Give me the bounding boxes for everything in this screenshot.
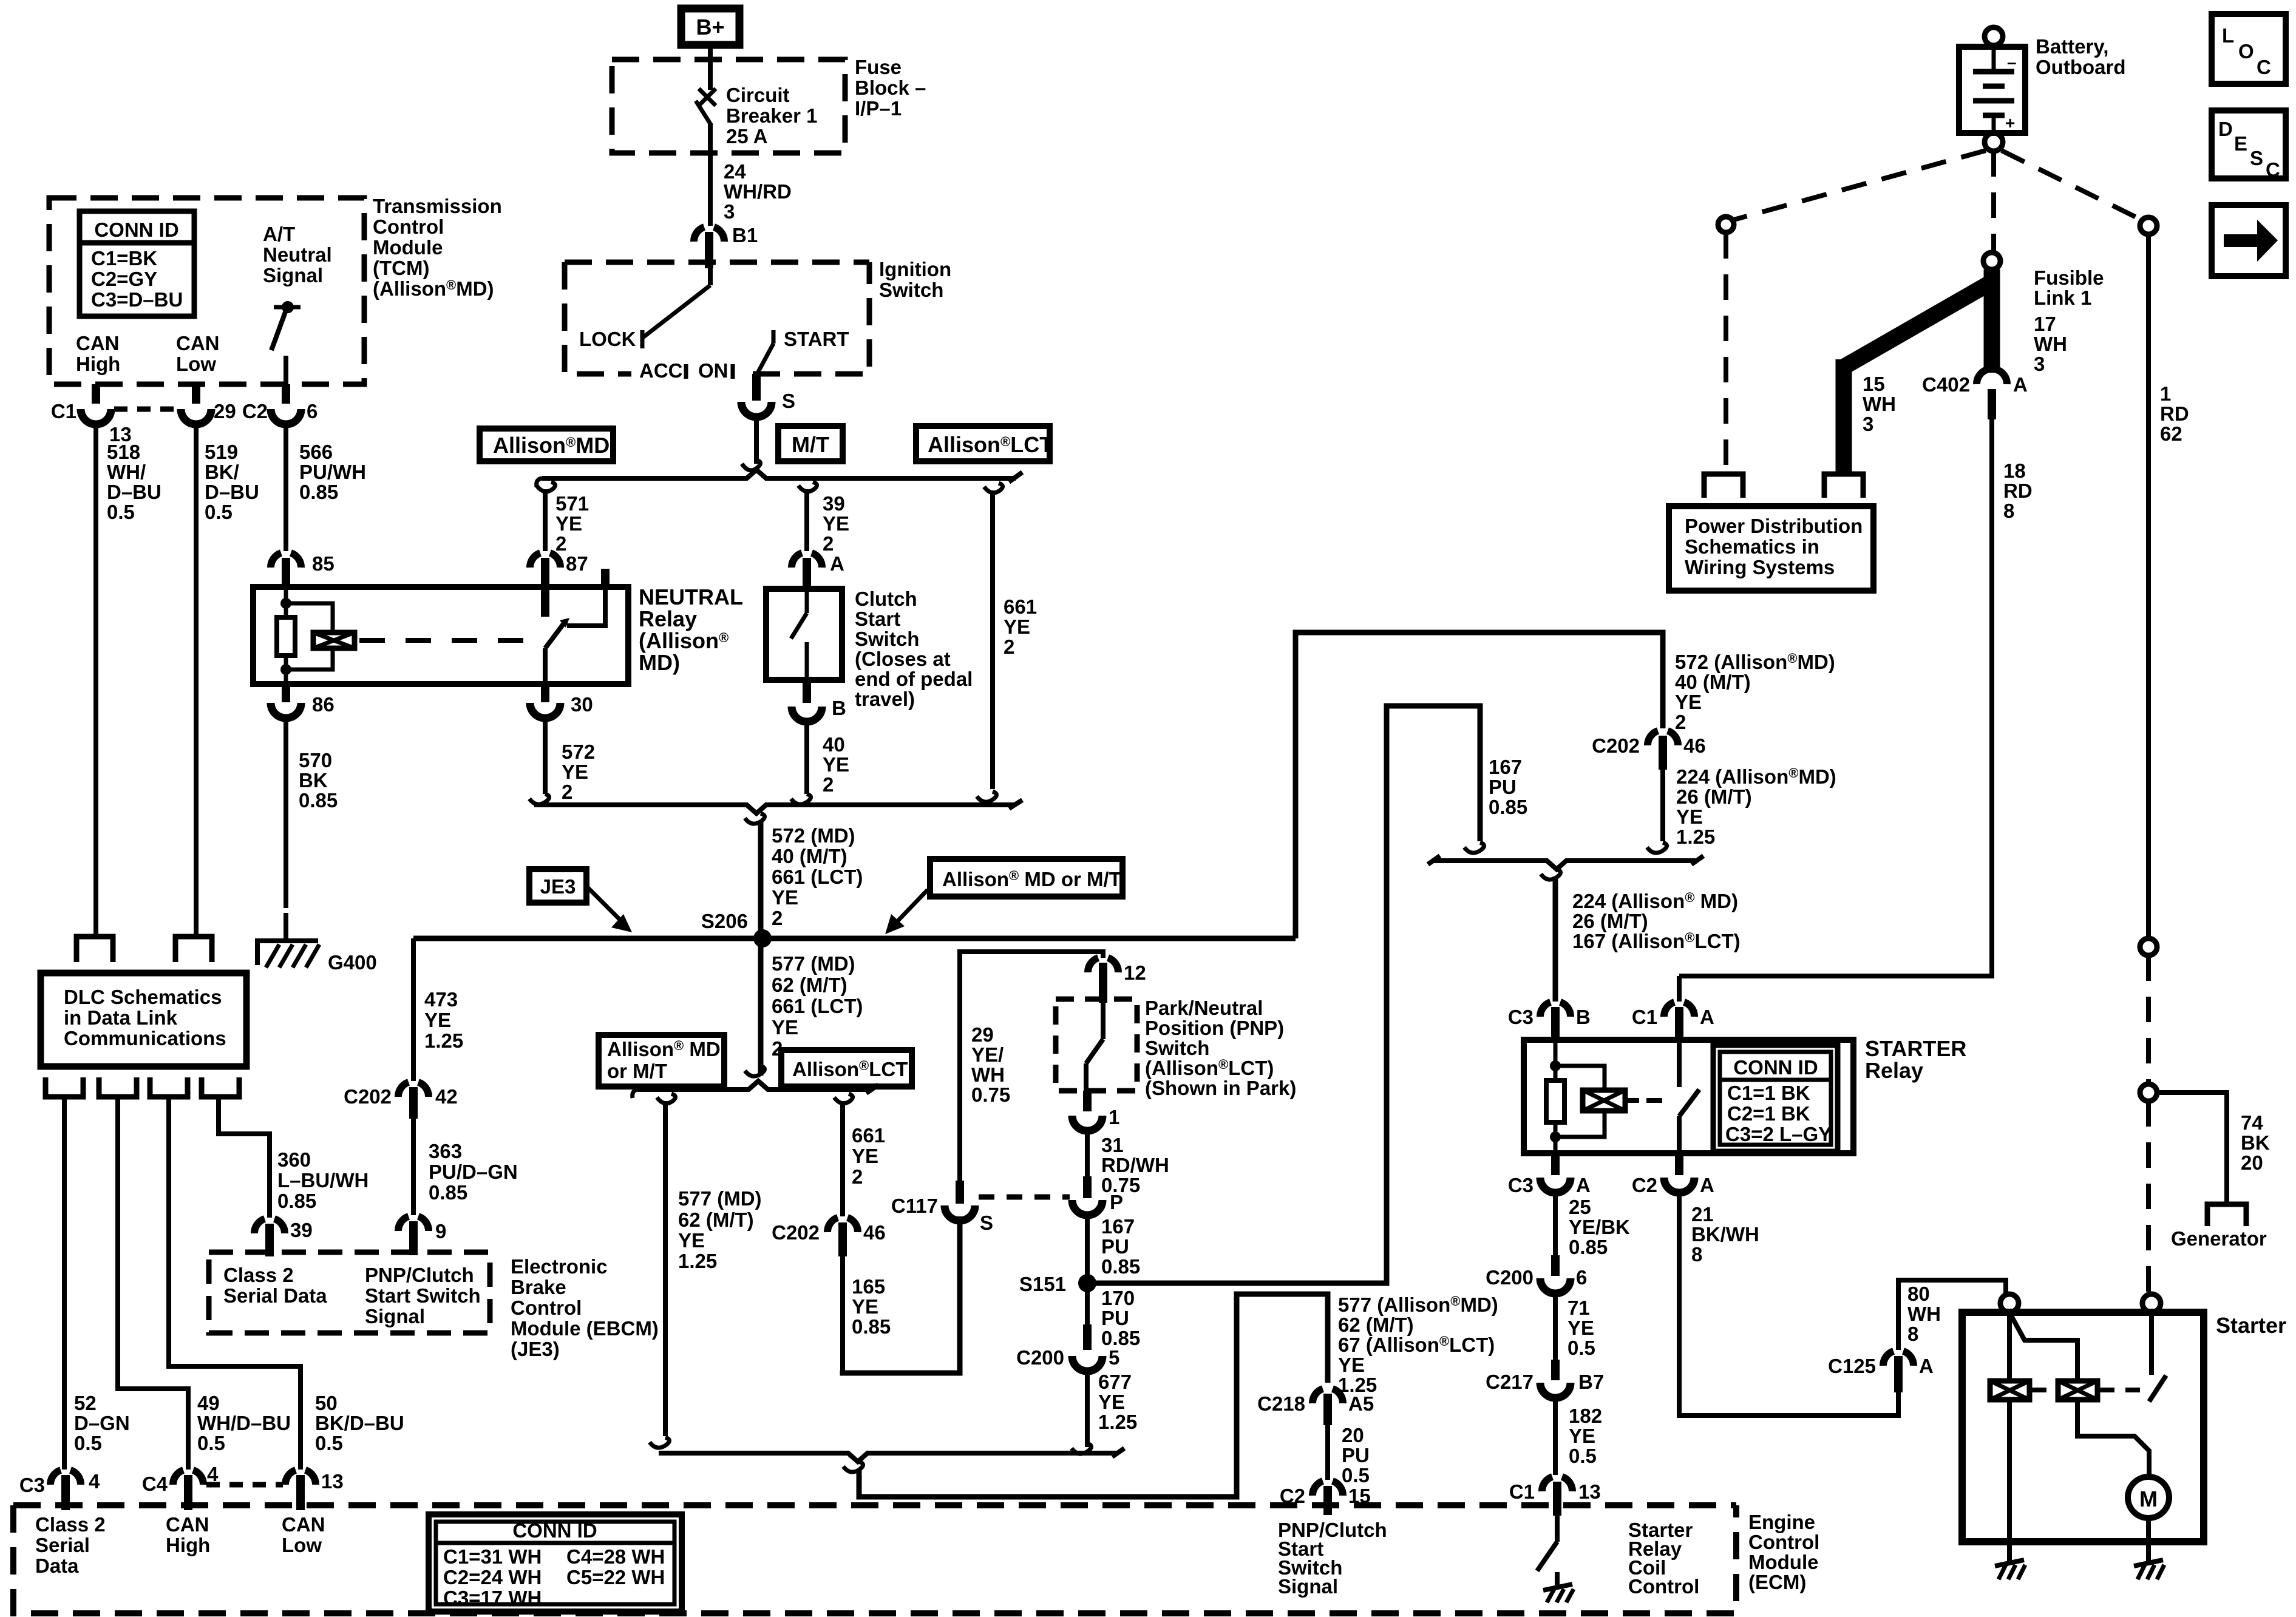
option bracket line 2: [534, 805, 1016, 813]
dashed line C1 to 29: [114, 407, 178, 412]
dashed wire battery to right branch: [2002, 151, 2141, 220]
svg-text:C2=GY: C2=GY: [91, 268, 157, 290]
starter terminal circle S: [2000, 1294, 2019, 1312]
wire 571 branch hook: [537, 482, 555, 492]
DLC output bracket 4: [202, 1077, 239, 1097]
connector C1 pin A (starter relay): [1632, 1002, 1714, 1040]
bracket 1 right end tick: [1009, 472, 1022, 482]
wire DLC3 down: [169, 1097, 301, 1470]
EBCM dashed box: [209, 1252, 490, 1333]
svg-text:C3: C3: [19, 1474, 45, 1496]
svg-text:0.85: 0.85: [1101, 1327, 1140, 1349]
svg-text:4: 4: [89, 1470, 100, 1493]
hook 577 wire to bracket4: [650, 1437, 670, 1448]
battery polarity signs: [2005, 53, 2017, 132]
svg-text:B7: B7: [1578, 1371, 1604, 1393]
svg-text:S151: S151: [1019, 1273, 1066, 1295]
svg-text:C1=BK: C1=BK: [91, 247, 157, 269]
hook 40 wire to bracket2: [791, 794, 811, 804]
svg-text:I/P–1: I/P–1: [855, 97, 902, 120]
connector C2 pin 6 (TCM): [242, 384, 318, 551]
label 224(AllisonMD) 26(M/T) 167(AllisonLCT): [1572, 890, 1741, 952]
svg-text:30: 30: [571, 693, 593, 716]
terminal circle mid 1RD62: [2140, 938, 2157, 955]
ground G400: [255, 941, 377, 974]
hook 224 wire to bracket3: [1647, 842, 1667, 853]
svg-text:25: 25: [1569, 1196, 1591, 1218]
connector C1 (TCM): [51, 384, 111, 937]
svg-text:C3=17 WH: C3=17 WH: [443, 1587, 542, 1609]
svg-text:YE: YE: [424, 1009, 451, 1031]
svg-text:Power Distribution: Power Distribution: [1685, 515, 1863, 537]
label 677 YE 1.25: [1098, 1371, 1137, 1433]
svg-text:Signal: Signal: [263, 264, 323, 286]
starter solenoid wire 1: [2007, 1312, 2012, 1381]
svg-text:519: 519: [205, 441, 238, 463]
svg-text:C1: C1: [1509, 1480, 1535, 1503]
svg-text:Link 1: Link 1: [2034, 286, 2091, 309]
svg-text:Block –: Block –: [855, 76, 926, 99]
svg-text:2: 2: [823, 773, 834, 796]
svg-text:661 (LCT): 661 (LCT): [772, 866, 863, 888]
label 224(AllisonMD) 26(M/T) YE 1.25: [1676, 765, 1836, 848]
label 570 BK 0.85: [299, 749, 338, 812]
wire 80 WH 8 to starter: [1898, 1280, 2006, 1350]
label Fusible Link 1 17 WH 3: [2034, 266, 2104, 375]
svg-text:BK/WH: BK/WH: [1691, 1223, 1759, 1246]
svg-text:PU/WH: PU/WH: [299, 461, 366, 483]
wire 1 RD 62: [2146, 234, 2151, 938]
svg-text:Allison® MD: Allison® MD: [607, 1038, 721, 1060]
solenoid coil 1: [1990, 1381, 2029, 1400]
svg-text:WH: WH: [1863, 393, 1896, 415]
svg-text:CONN ID: CONN ID: [512, 1519, 597, 1542]
svg-text:0.5: 0.5: [205, 501, 233, 523]
svg-text:0.85: 0.85: [299, 789, 338, 812]
box Allison LCT (lower): [781, 1050, 912, 1086]
svg-text:RD/WH: RD/WH: [1101, 1154, 1169, 1176]
svg-text:C: C: [2266, 158, 2280, 181]
wire 20 PU 0.5: [1325, 1425, 1330, 1480]
svg-text:661 (LCT): 661 (LCT): [772, 995, 863, 1017]
dashed line C4 to 13: [206, 1482, 283, 1488]
wire C117 up and over to PNP 12: [960, 952, 1103, 1181]
svg-text:+: +: [2005, 114, 2015, 132]
wire 571 YE 2: [543, 489, 548, 551]
svg-text:2: 2: [555, 532, 566, 555]
svg-text:(Allison®LCT): (Allison®LCT): [1145, 1057, 1274, 1079]
splice S151: [1019, 1273, 1096, 1295]
svg-text:0.85: 0.85: [299, 481, 338, 503]
connector C3 pin A (starter relay out): [1508, 1153, 1591, 1255]
battery outboard box: [1959, 47, 2025, 133]
svg-text:L: L: [2222, 24, 2234, 47]
bracket3 right end tick: [1691, 856, 1703, 864]
svg-text:D–BU: D–BU: [107, 481, 161, 503]
svg-text:31: 31: [1101, 1134, 1124, 1156]
svg-text:Circuit: Circuit: [726, 84, 790, 106]
svg-text:YE: YE: [1567, 1317, 1594, 1339]
svg-text:MD): MD): [639, 650, 680, 675]
svg-text:677: 677: [1098, 1371, 1132, 1393]
svg-text:START: START: [784, 328, 849, 350]
connector C125 pin A: [1828, 1351, 1934, 1392]
label 661 YE 2 (lower): [852, 1124, 885, 1188]
starter relay switch: [1679, 1040, 1699, 1153]
svg-text:YE: YE: [1338, 1354, 1365, 1376]
svg-text:15: 15: [1863, 373, 1885, 395]
svg-text:46: 46: [863, 1221, 886, 1244]
svg-text:74: 74: [2241, 1111, 2263, 1134]
svg-text:C4: C4: [142, 1473, 168, 1495]
svg-text:1.25: 1.25: [1676, 825, 1715, 848]
hook 677 wire to bracket4: [1072, 1443, 1092, 1454]
svg-text:A: A: [1700, 1006, 1714, 1028]
svg-text:A: A: [1576, 1174, 1591, 1196]
svg-text:0.5: 0.5: [1569, 1445, 1597, 1467]
svg-text:C217: C217: [1486, 1371, 1533, 1393]
svg-text:S206: S206: [701, 910, 748, 932]
label 71 YE 0.5: [1567, 1297, 1595, 1359]
TCM dashed box: [49, 198, 364, 384]
svg-text:13: 13: [1578, 1480, 1601, 1503]
label 170 PU 0.85: [1101, 1287, 1140, 1349]
svg-text:M: M: [2139, 1486, 2158, 1511]
label 21 BK/WH 8: [1691, 1203, 1759, 1266]
svg-text:or M/T: or M/T: [607, 1060, 667, 1082]
svg-text:570: 570: [299, 749, 332, 771]
wire bracket4 to C218 (PNP/clutch signal to ECM): [859, 1294, 1328, 1497]
svg-text:2: 2: [852, 1165, 863, 1188]
connector 13 (ECM): [285, 1470, 344, 1510]
label 49 WH/D-BU 0.5: [197, 1392, 291, 1454]
svg-text:CONN ID: CONN ID: [94, 219, 178, 241]
solenoid coil 2: [2058, 1381, 2097, 1400]
svg-text:Allison® MD or M/T: Allison® MD or M/T: [942, 868, 1121, 890]
svg-text:YE: YE: [555, 512, 582, 535]
option bracket line 1 (transmission options): [542, 470, 1016, 478]
svg-text:WH/D–BU: WH/D–BU: [197, 1412, 291, 1434]
svg-text:A: A: [1919, 1355, 1934, 1377]
starter relay coil winding: [1555, 1066, 1671, 1137]
svg-text:165: 165: [852, 1275, 885, 1298]
svg-text:26 (M/T): 26 (M/T): [1572, 910, 1648, 932]
hook 661 wire to bracket2: [977, 792, 997, 802]
B+ power terminal box: [681, 8, 739, 45]
svg-text:C5=22 WH: C5=22 WH: [566, 1566, 665, 1588]
svg-text:62: 62: [2160, 422, 2182, 445]
svg-text:1.25: 1.25: [424, 1029, 463, 1052]
clutch start switch box: [766, 589, 842, 680]
svg-text:P: P: [1110, 1191, 1123, 1213]
svg-text:62 (M/T): 62 (M/T): [678, 1209, 754, 1231]
label A/T Neutral Signal: [263, 223, 332, 286]
svg-text:Low: Low: [176, 353, 216, 375]
svg-text:2: 2: [823, 532, 834, 555]
svg-text:Clutch: Clutch: [855, 588, 917, 610]
svg-text:A5: A5: [1348, 1392, 1374, 1415]
svg-text:O: O: [2238, 40, 2254, 63]
svg-text:Control: Control: [511, 1297, 582, 1319]
svg-text:YE/: YE/: [971, 1043, 1004, 1066]
svg-text:50: 50: [315, 1392, 338, 1414]
connector C200 pin 5: [1016, 1324, 1119, 1447]
svg-text:WH: WH: [971, 1063, 1005, 1086]
fusible link 1 heavy wire: [1844, 269, 1992, 472]
svg-text:YE: YE: [772, 1016, 798, 1039]
wire 577(MD) 62(M/T) YE 1.25: [663, 1101, 668, 1436]
svg-text:21: 21: [1691, 1203, 1714, 1225]
ground starter motor: [2134, 1560, 2164, 1579]
label Park/Neutral Position (PNP) Switch: [1145, 997, 1296, 1099]
svg-text:5: 5: [1109, 1346, 1119, 1369]
svg-text:Control: Control: [1748, 1531, 1819, 1553]
svg-text:B: B: [1576, 1006, 1591, 1028]
svg-text:C402: C402: [1922, 373, 1970, 396]
connector C202 pin 46 (left): [772, 1218, 886, 1256]
svg-text:C202: C202: [344, 1085, 392, 1108]
wire solenoid to ground: [2007, 1542, 2012, 1561]
label 50 BK/D-BU 0.5: [315, 1392, 404, 1454]
wire S206 down to bracket 2b: [758, 938, 764, 1076]
svg-text:YE: YE: [678, 1229, 705, 1252]
connector 85: [271, 552, 335, 587]
hook wire to bracket2b: [745, 1066, 765, 1076]
svg-text:ON: ON: [698, 359, 729, 382]
svg-text:Serial: Serial: [35, 1534, 90, 1556]
DLC output bracket 1: [46, 1077, 83, 1097]
connector 1 (PNP): [1072, 1091, 1119, 1176]
wire 21 BK/WH 8: [1679, 1193, 1898, 1415]
svg-text:Serial Data: Serial Data: [223, 1284, 327, 1307]
dashed wire generator tap to starter: [2146, 1101, 2151, 1294]
svg-text:3: 3: [2034, 353, 2045, 375]
svg-text:40: 40: [823, 733, 845, 756]
wire 18RD to C1-A: [1677, 976, 1682, 1002]
label 29 YE/ WH 0.75: [971, 1023, 1010, 1106]
label 577(AllisonMD) 62(M/T) 67(AllisonLCT) YE 1.25: [1338, 1293, 1498, 1396]
svg-text:Communications: Communications: [64, 1027, 226, 1049]
svg-text:29: 29: [971, 1023, 994, 1046]
svg-text:Control: Control: [373, 215, 444, 238]
svg-text:ACC: ACC: [639, 359, 683, 382]
svg-text:BK/D–BU: BK/D–BU: [315, 1412, 404, 1434]
wire 170 PU 0.85: [1085, 1283, 1090, 1324]
svg-text:C218: C218: [1257, 1392, 1305, 1415]
wire bracket2 to S206: [758, 821, 764, 938]
svg-text:C125: C125: [1828, 1355, 1876, 1377]
label 80 WH 8: [1907, 1283, 1941, 1345]
battery top terminal circle: [1985, 27, 2003, 46]
ECM dashed box: [13, 1505, 1736, 1613]
label 661 YE 2: [1004, 595, 1037, 658]
label Clutch Start Switch: [855, 588, 973, 710]
svg-text:1: 1: [2160, 382, 2171, 405]
svg-text:571: 571: [555, 492, 589, 515]
box M/T: [778, 426, 843, 461]
svg-text:71: 71: [1567, 1297, 1590, 1319]
svg-text:D–BU: D–BU: [205, 481, 259, 503]
svg-text:C2: C2: [1280, 1485, 1305, 1507]
ground starter solenoid: [1995, 1560, 2025, 1579]
wire dash to ground: [284, 913, 288, 938]
wire S206 to C202-42: [411, 938, 416, 1081]
connector B (clutch start switch): [792, 680, 846, 794]
wire 74 BK 20 to generator: [2157, 1093, 2227, 1203]
wire 661 YE 2: [990, 490, 995, 789]
svg-text:473: 473: [424, 988, 458, 1011]
starter relay coil resistor: [1546, 1040, 1564, 1153]
svg-text:PU: PU: [1489, 776, 1517, 798]
svg-text:2: 2: [562, 781, 572, 803]
svg-text:40 (M/T): 40 (M/T): [772, 845, 847, 867]
svg-text:0.85: 0.85: [1101, 1255, 1140, 1278]
clutch switch arm: [791, 589, 807, 680]
option bracket line 4: [659, 1453, 1118, 1462]
svg-text:C2=1 BK: C2=1 BK: [1727, 1102, 1810, 1125]
wire B+ to fuse block: [708, 45, 713, 90]
svg-text:46: 46: [1683, 734, 1706, 757]
svg-text:end of pedal: end of pedal: [855, 668, 973, 690]
connector C3 pin B (starter relay): [1508, 1002, 1591, 1040]
svg-text:1.25: 1.25: [1098, 1411, 1137, 1433]
svg-text:WH: WH: [2034, 333, 2067, 355]
svg-text:24: 24: [724, 160, 746, 183]
connector 86: [271, 684, 335, 908]
circuit breaker CB1: [696, 89, 716, 226]
connector 12 (PNP switch): [1088, 958, 1146, 1003]
relay coil resistor branch: [277, 587, 295, 684]
label Battery, Outboard: [2036, 35, 2125, 78]
svg-text:(JE3): (JE3): [511, 1338, 560, 1360]
label 577(MD) 62(M/T) YE 1.25: [678, 1187, 762, 1272]
svg-text:L–BU/WH: L–BU/WH: [277, 1169, 369, 1192]
dashed wire to generator tap: [2146, 955, 2151, 1084]
svg-text:Signal: Signal: [365, 1305, 425, 1327]
svg-text:572 (Allison®MD): 572 (Allison®MD): [1675, 651, 1835, 673]
svg-text:42: 42: [435, 1085, 458, 1108]
connector C1 pin 13 (ECM): [1509, 1477, 1601, 1516]
starter box: [1962, 1312, 2204, 1542]
svg-text:Switch: Switch: [855, 628, 919, 650]
label 167 PU 0.85 (PNP output): [1101, 1215, 1140, 1278]
bracket 2 right end tick: [1009, 800, 1022, 808]
svg-text:YE: YE: [823, 753, 849, 776]
svg-text:–: –: [2007, 53, 2017, 72]
svg-text:G400: G400: [328, 951, 377, 974]
svg-text:18: 18: [2003, 459, 2026, 482]
label 31 RD/WH 0.75: [1101, 1134, 1169, 1196]
hook bracket3 output: [1541, 869, 1561, 880]
svg-text:C202: C202: [1592, 734, 1640, 757]
svg-text:572: 572: [562, 741, 595, 763]
svg-text:C3: C3: [1508, 1174, 1533, 1196]
arrow from Allison MD or M/T box to S206: [885, 890, 928, 934]
connector C2 pin A (starter relay out): [1632, 1153, 1714, 1196]
svg-text:YE: YE: [1004, 615, 1030, 638]
connector 39 (EBCM): [254, 1219, 313, 1256]
terminal bracket wire1 to DLC: [76, 937, 113, 962]
svg-text:12: 12: [1124, 961, 1146, 984]
svg-text:RD: RD: [2003, 480, 2033, 502]
ECM label PNP/Clutch Start Switch Signal: [1278, 1519, 1387, 1598]
svg-text:518: 518: [107, 441, 140, 463]
svg-text:Battery,: Battery,: [2036, 35, 2108, 58]
ground in ECM: [1543, 1584, 1574, 1602]
battery cells: [1973, 47, 2014, 133]
connector C4 pin 4 (ECM): [142, 1463, 219, 1510]
svg-text:Signal: Signal: [1278, 1575, 1338, 1598]
svg-text:167: 167: [1101, 1215, 1135, 1238]
svg-text:C1=1 BK: C1=1 BK: [1727, 1082, 1810, 1104]
svg-text:High: High: [166, 1534, 210, 1556]
svg-text:(ECM): (ECM): [1748, 1571, 1806, 1593]
svg-text:3: 3: [724, 200, 735, 223]
bracket4 right end tick: [1112, 1448, 1124, 1457]
svg-text:52: 52: [74, 1392, 97, 1414]
wire hook S to option bracket: [742, 460, 761, 470]
svg-text:travel): travel): [855, 688, 915, 710]
connector C218 pin A5: [1257, 1389, 1374, 1425]
svg-text:D–GN: D–GN: [74, 1412, 130, 1434]
svg-text:17: 17: [2034, 313, 2056, 335]
terminal bracket generator: [2207, 1204, 2246, 1226]
clutch branch hook from bracket1: [798, 482, 817, 492]
svg-text:YE: YE: [772, 886, 798, 909]
ignition switch dashed box: [565, 262, 869, 374]
wire 224 YE 1.25: [1660, 770, 1665, 841]
svg-text:PU: PU: [1101, 1307, 1129, 1329]
connector C202 pin 42: [344, 1082, 458, 1119]
option bracket line 3: [1433, 861, 1697, 869]
svg-text:62 (M/T): 62 (M/T): [1338, 1314, 1414, 1336]
label Transmission Control Module (TCM): [373, 195, 502, 300]
TCM CONN ID table: [80, 211, 194, 316]
label Ignition Switch: [879, 258, 951, 301]
svg-text:CAN: CAN: [282, 1513, 325, 1536]
box Allison LCT: [916, 426, 1053, 461]
svg-text:C1=31 WH: C1=31 WH: [443, 1545, 542, 1568]
svg-text:C1: C1: [1632, 1006, 1657, 1028]
label 572(AllisonMD) 40(M/T) YE 2: [1675, 651, 1835, 733]
battery bottom terminal circle: [1985, 133, 2003, 151]
svg-text:661: 661: [852, 1124, 885, 1147]
label Engine Control Module (ECM): [1748, 1511, 1819, 1593]
label 18 RD 8: [2003, 459, 2033, 522]
EBCM pin labels: [223, 1264, 481, 1327]
terminal circle left branch: [1718, 217, 1734, 232]
wire S151 to bracket3 (167 PU): [1087, 706, 1480, 1283]
connector C202 pin 46 (right): [1592, 731, 1706, 770]
label 360 L-BU/WH 0.85: [277, 1148, 369, 1212]
svg-text:Brake: Brake: [511, 1276, 566, 1298]
svg-text:RD: RD: [2160, 402, 2189, 425]
svg-text:YE: YE: [1569, 1425, 1595, 1447]
dashed wire battery to left branch: [1734, 151, 1986, 220]
ECM pin labels left: [35, 1513, 325, 1577]
svg-text:C2: C2: [1632, 1174, 1657, 1196]
svg-text:LOCK: LOCK: [579, 328, 636, 350]
wire DLC1 down (52 D-GN): [62, 1097, 67, 1470]
label 1 RD 62: [2160, 382, 2189, 445]
svg-text:Outboard: Outboard: [2036, 56, 2125, 78]
JE3 arrow: [588, 887, 632, 932]
ECM starter relay coil control switch: [1537, 1516, 1557, 1588]
svg-text:S: S: [2250, 147, 2263, 169]
label 182 YE 0.5: [1569, 1405, 1602, 1467]
svg-text:YE: YE: [1098, 1391, 1125, 1413]
box Allison MD or M/T (lower): [599, 1035, 724, 1086]
